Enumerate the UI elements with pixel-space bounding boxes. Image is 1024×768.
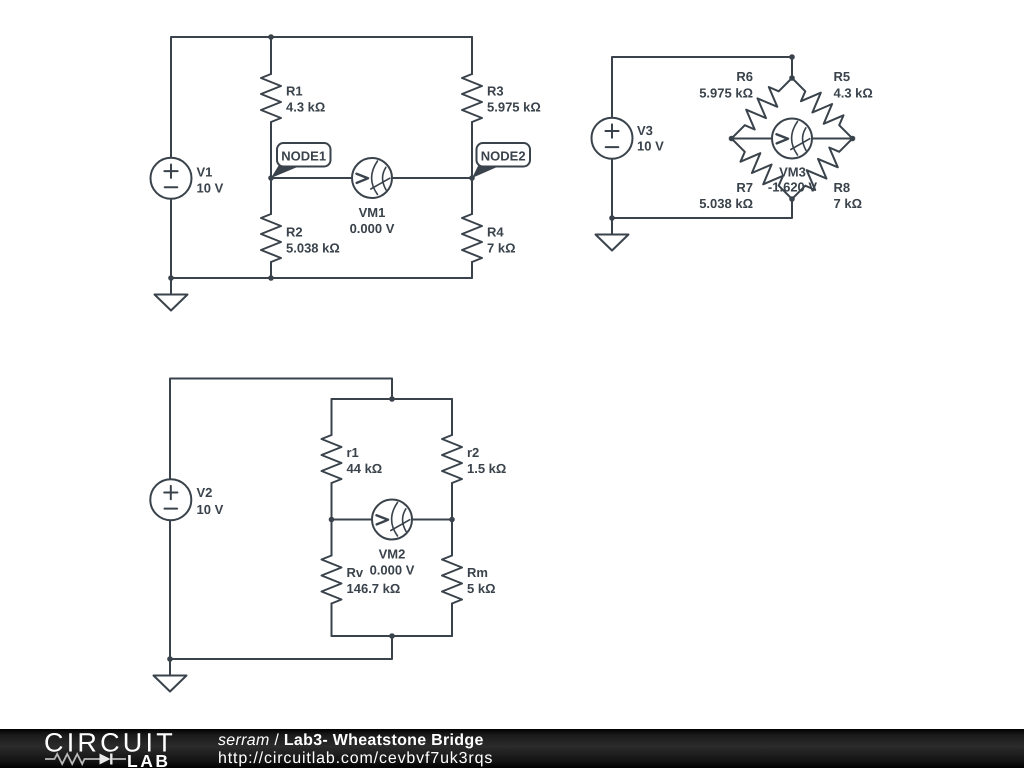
svg-text:4.3 kΩ: 4.3 kΩ xyxy=(286,100,325,115)
svg-text:V3: V3 xyxy=(637,123,653,138)
svg-text:10 V: 10 V xyxy=(197,502,224,517)
svg-text:0.000 V: 0.000 V xyxy=(350,221,395,236)
svg-text:r2: r2 xyxy=(467,445,479,460)
svg-text:NODE1: NODE1 xyxy=(281,149,326,164)
svg-text:VM3: VM3 xyxy=(779,164,806,179)
svg-text:0.000 V: 0.000 V xyxy=(370,562,415,577)
svg-text:5.038 kΩ: 5.038 kΩ xyxy=(699,196,753,211)
svg-text:R2: R2 xyxy=(286,225,303,240)
svg-text:R8: R8 xyxy=(834,180,851,195)
svg-text:Rv: Rv xyxy=(347,565,364,580)
svg-text:R4: R4 xyxy=(487,225,504,240)
svg-text:5.975 kΩ: 5.975 kΩ xyxy=(699,86,753,101)
svg-text:R7: R7 xyxy=(736,180,753,195)
svg-text:7 kΩ: 7 kΩ xyxy=(487,241,516,256)
svg-text:R6: R6 xyxy=(736,69,753,84)
svg-text:VM2: VM2 xyxy=(379,546,406,561)
svg-text:5.038 kΩ: 5.038 kΩ xyxy=(286,241,340,256)
svg-text:1.5 kΩ: 1.5 kΩ xyxy=(467,461,506,476)
svg-text:5.975 kΩ: 5.975 kΩ xyxy=(487,100,541,115)
svg-text:R3: R3 xyxy=(487,84,504,99)
svg-text:146.7 kΩ: 146.7 kΩ xyxy=(347,581,401,596)
svg-text:7 kΩ: 7 kΩ xyxy=(834,196,863,211)
svg-text:R5: R5 xyxy=(834,69,851,84)
svg-text:r1: r1 xyxy=(347,445,359,460)
svg-text:Rm: Rm xyxy=(467,565,488,580)
svg-text:NODE2: NODE2 xyxy=(481,149,526,164)
svg-text:10 V: 10 V xyxy=(637,139,664,154)
svg-text:-1.620 V: -1.620 V xyxy=(768,180,817,195)
svg-text:VM1: VM1 xyxy=(359,205,386,220)
svg-text:4.3 kΩ: 4.3 kΩ xyxy=(834,86,873,101)
svg-text:V1: V1 xyxy=(197,165,213,180)
svg-text:R1: R1 xyxy=(286,84,303,99)
svg-text:V2: V2 xyxy=(197,485,213,500)
svg-text:5 kΩ: 5 kΩ xyxy=(467,581,496,596)
svg-text:10 V: 10 V xyxy=(197,180,224,195)
svg-text:44 kΩ: 44 kΩ xyxy=(347,461,383,476)
